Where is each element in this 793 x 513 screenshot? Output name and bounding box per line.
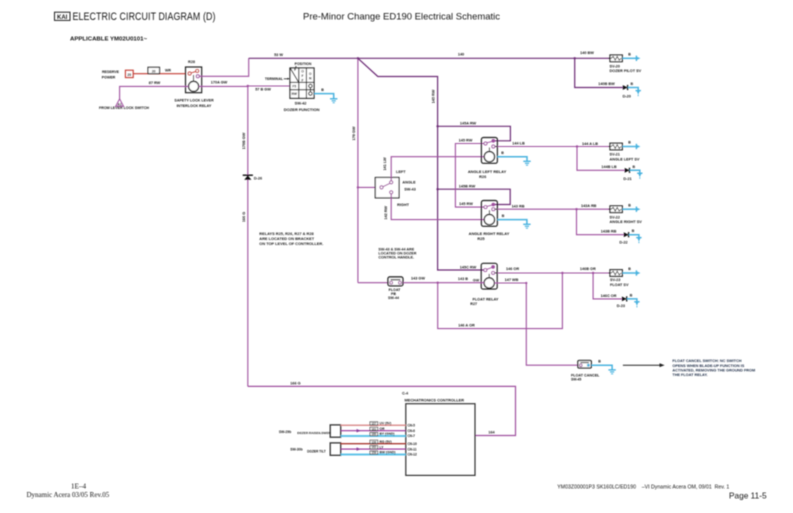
wire 146 A OR float self-hold: [438, 273, 563, 329]
svg-text:143A RB: 143A RB: [581, 204, 597, 208]
junction 146 OR / 146A OR: [561, 272, 563, 274]
svg-text:ANGLE: ANGLE: [402, 181, 416, 185]
wire 161 OR: [341, 430, 406, 432]
svg-text:R27: R27: [470, 302, 477, 306]
svg-text:R25: R25: [477, 236, 485, 241]
wire relay R28 contact output to top bus: [199, 58, 249, 76]
svg-text:B: B: [628, 267, 631, 271]
svg-text:CN-6: CN-6: [408, 429, 416, 433]
svg-text:20: 20: [152, 69, 156, 73]
wire 147 WB float relay coil to float cancel switch: [495, 283, 578, 365]
wire 143 RB relay R25 to SV-22: [497, 208, 609, 210]
svg-text:143 B: 143 B: [458, 277, 468, 281]
terminal B arrow D-23: [634, 302, 639, 308]
terminal B arrow SV-20: [636, 56, 640, 61]
wire 144B LB to diode D-21: [577, 147, 625, 171]
wire B from dozer switch to ground: [314, 94, 334, 99]
terminal B arrow D-22: [636, 238, 641, 244]
wire 170A GW: [199, 85, 248, 87]
terminal B arrow SV-23: [636, 270, 640, 275]
svg-text:RW: RW: [292, 92, 297, 96]
svg-text:O: O: [309, 72, 312, 76]
svg-text:SW-45: SW-45: [571, 377, 581, 381]
svg-text:1E–4: 1E–4: [71, 482, 87, 490]
relay R27 float relay: [481, 263, 497, 289]
svg-text:CN-11: CN-11: [408, 447, 417, 451]
relay R26 angle left relay: [481, 138, 497, 164]
svg-text:ANGLE LEFT RELAY: ANGLE LEFT RELAY: [468, 169, 507, 174]
wire WR red from reserve power to relay R28: [133, 73, 186, 75]
svg-text:B: B: [628, 203, 631, 207]
wire 156 RG (5V): [341, 443, 406, 445]
svg-text:FROM LEVER LOCK SWITCH: FROM LEVER LOCK SWITCH: [99, 106, 149, 110]
svg-text:APPLICABLE YM02U0101~: APPLICABLE YM02U0101~: [70, 37, 147, 43]
svg-text:159: 159: [371, 451, 376, 455]
svg-text:ANGLE LEFT SV: ANGLE LEFT SV: [610, 157, 640, 161]
wire B diode D-20: [628, 88, 638, 91]
svg-text:140: 140: [458, 53, 464, 57]
svg-text:D-22: D-22: [619, 241, 627, 245]
svg-text:OR: OR: [380, 427, 386, 431]
svg-text:UV (5V): UV (5V): [380, 422, 392, 426]
switch SW-42 dozer function: [290, 68, 314, 98]
svg-text:TERMINAL: TERMINAL: [265, 77, 284, 81]
svg-text:D-23: D-23: [617, 304, 625, 308]
wire 145 RW link between relay R26 and R25 pivots: [455, 144, 485, 208]
wire B diode D-22: [629, 235, 639, 238]
svg-text:170 GW: 170 GW: [352, 126, 356, 140]
svg-text:ANGLE RIGHT RELAY: ANGLE RIGHT RELAY: [469, 231, 510, 236]
ground dozer function switch: [330, 99, 337, 103]
svg-text:DOZER RAISE/LOWER: DOZER RAISE/LOWER: [297, 431, 331, 435]
svg-text:B: B: [628, 52, 631, 56]
relay R25 angle right relay: [481, 201, 497, 227]
off-page arrow FROM LEVER LOCK SWITCH: [116, 99, 124, 107]
svg-text:146 A OR: 146 A OR: [458, 324, 475, 328]
svg-text:SW-42: SW-42: [295, 101, 308, 106]
svg-text:THE FLOAT RELAY.: THE FLOAT RELAY.: [672, 373, 707, 377]
junction 146C OR branch: [592, 272, 594, 274]
wire 145A RW to relay R26 contact: [438, 126, 511, 141]
wire B relay R25 coil to ground: [497, 220, 527, 225]
svg-text:FLOAT SV: FLOAT SV: [610, 283, 629, 287]
junction top bus at node 140/170 GW: [357, 57, 359, 59]
svg-text:B: B: [632, 165, 635, 169]
arrow POSITION to cell: [294, 66, 296, 71]
svg-text:F: F: [302, 74, 304, 78]
arrow to float cancel note: [623, 363, 665, 367]
solenoid valve SV-22: [609, 206, 623, 213]
svg-text:146C OR: 146C OR: [601, 294, 617, 298]
svg-text:KAI: KAI: [57, 15, 68, 21]
ground relay R25: [523, 224, 530, 228]
diode D-20: [623, 85, 628, 90]
junction 145B RW: [436, 188, 438, 190]
wire B SV-22: [622, 208, 636, 210]
wire 145B RW to relay R25 contact: [438, 189, 511, 204]
wire 157 UV (5V): [341, 424, 406, 426]
svg-text:143B RB: 143B RB: [601, 230, 617, 234]
svg-text:FLOAT RELAY: FLOAT RELAY: [473, 297, 499, 301]
svg-text:D-20: D-20: [623, 94, 631, 98]
svg-text:ACTIVATED, REMOVING THE GROUND: ACTIVATED, REMOVING THE GROUND FROM: [672, 369, 755, 373]
wire 142 RW angle switch to relay R25 coil: [391, 194, 484, 220]
wire 146 OR float relay to SV-23: [498, 272, 611, 274]
potentiometer SW-30b dozer tilt: [330, 443, 341, 455]
svg-text:DOZER FUNCTION: DOZER FUNCTION: [284, 107, 320, 112]
svg-text:145 RW: 145 RW: [459, 202, 473, 206]
wire B diode D-23: [627, 299, 637, 302]
svg-text:170B GW: 170B GW: [242, 132, 246, 149]
wire 143 GW: [403, 282, 438, 284]
wire 144 LB relay R26 to SV-21: [497, 146, 610, 148]
switch SW-45 float cancel: [578, 361, 591, 369]
terminal B arrow D-20: [636, 91, 641, 97]
svg-text:141 LW: 141 LW: [383, 157, 387, 170]
wire 87 RW: [120, 86, 189, 98]
svg-text:ELECTRIC CIRCUIT DIAGRAM (D): ELECTRIC CIRCUIT DIAGRAM (D): [73, 11, 216, 23]
svg-text:SV-22: SV-22: [610, 215, 620, 219]
svg-text:SW-29b: SW-29b: [279, 430, 291, 434]
wire 162 LY: [341, 448, 406, 450]
wire 159 BW (GND): [341, 454, 406, 456]
solenoid valve SV-20: [609, 55, 623, 62]
svg-text:SV-23: SV-23: [610, 278, 620, 282]
svg-text:164: 164: [488, 431, 495, 435]
svg-text:Page 11-5: Page 11-5: [729, 490, 767, 500]
svg-text:157: 157: [371, 421, 376, 425]
wire 145 RW from bus to float relay (145C RW): [358, 58, 484, 270]
svg-text:RIGHT: RIGHT: [397, 203, 409, 207]
svg-text:53 W: 53 W: [274, 53, 283, 57]
svg-text:146 OR: 146 OR: [506, 267, 519, 271]
svg-text:B: B: [628, 141, 631, 145]
wire 57 B GW to dozer function switch: [248, 85, 290, 87]
svg-text:F5: F5: [292, 85, 296, 89]
svg-text:142 RW: 142 RW: [384, 206, 388, 220]
svg-text:SW-44: SW-44: [388, 296, 399, 300]
svg-text:Pre-Minor Change ED190 Electri: Pre-Minor Change ED190 Electrical Schema…: [303, 12, 500, 23]
potentiometer SW-29b dozer raise/lower: [330, 425, 341, 437]
svg-text:R26: R26: [479, 174, 487, 179]
wire 140B BW to diode D-20: [575, 58, 623, 87]
wire B diode D-21: [630, 170, 640, 173]
svg-text:B: B: [630, 293, 633, 297]
wire 170 GW to float pushbutton: [358, 282, 388, 284]
svg-text:INTERLOCK RELAY: INTERLOCK RELAY: [177, 104, 212, 108]
junction 170A GW / 170B GW: [247, 85, 249, 87]
controller C-4 box: [406, 404, 475, 476]
svg-text:CN-5: CN-5: [408, 424, 416, 428]
svg-text:166 G: 166 G: [242, 212, 246, 222]
diode D-26 on 170B GW / 166 G line: [243, 175, 253, 180]
svg-text:143 GW: 143 GW: [411, 277, 425, 281]
svg-text:ANGLE RIGHT SV: ANGLE RIGHT SV: [610, 220, 643, 224]
svg-text:147 WB: 147 WB: [505, 278, 519, 282]
svg-text:144B LB: 144B LB: [601, 165, 616, 169]
svg-text:GW: GW: [473, 279, 480, 283]
wire top bus 53 W / 140: [249, 57, 610, 59]
terminal B arrow SV-22: [636, 207, 640, 212]
arrow TERMINAL to column: [284, 78, 290, 80]
svg-text:POSITION: POSITION: [295, 62, 312, 66]
junction 143 GW node: [437, 282, 439, 284]
wire to angle switch pivot: [358, 186, 380, 188]
svg-text:POWER: POWER: [102, 76, 116, 80]
junction 145A RW: [436, 125, 438, 127]
svg-text:145A RW: 145A RW: [460, 122, 477, 126]
svg-text:FLOAT CANCEL SWITCH: NC SWITCH: FLOAT CANCEL SWITCH: NC SWITCH: [672, 359, 741, 363]
wire 143 B GW to float relay coil: [438, 282, 485, 284]
wire B float cancel to ground: [591, 365, 612, 370]
svg-text:B: B: [502, 214, 505, 218]
svg-text:140B BW: 140B BW: [598, 82, 615, 86]
terminal B arrow D-21: [637, 173, 642, 179]
svg-text:R28: R28: [188, 60, 195, 64]
KAI tab box: [55, 12, 71, 20]
svg-text:145B RW: 145B RW: [459, 185, 476, 189]
svg-text:CONTROL HANDLE.: CONTROL HANDLE.: [378, 255, 414, 259]
junction 170 GW to angle switch: [357, 186, 359, 188]
wire 143B RB to diode D-22: [577, 209, 624, 235]
svg-text:MECHATRONICS CONTROLLER: MECHATRONICS CONTROLLER: [405, 397, 465, 402]
diode D-22: [624, 232, 629, 237]
svg-text:F: F: [302, 78, 304, 82]
svg-text:D-21: D-21: [623, 177, 631, 181]
svg-text:DOZER PILOT SV: DOZER PILOT SV: [610, 69, 642, 73]
svg-text:161: 161: [371, 427, 376, 431]
svg-text:20: 20: [127, 73, 131, 77]
connector reserve power (red box): [125, 70, 133, 77]
junction 143B RB branch: [575, 208, 577, 210]
svg-text:57 B GW: 57 B GW: [255, 87, 271, 91]
wire 146C OR to diode D-23: [593, 273, 622, 299]
svg-text:B: B: [321, 88, 324, 92]
svg-text:B: B: [598, 359, 601, 363]
wire B SV-23: [622, 272, 636, 274]
svg-text:144 A LB: 144 A LB: [582, 142, 598, 146]
svg-text:ON TOP LEVEL OF CONTROLLER.: ON TOP LEVEL OF CONTROLLER.: [259, 241, 323, 246]
svg-text:OPENS WHEN BLADE-UP FUNCTION I: OPENS WHEN BLADE-UP FUNCTION IS: [672, 364, 744, 368]
wire 141 LW angle switch to relay R26 coil: [391, 157, 484, 181]
svg-text:140 BW: 140 BW: [580, 51, 594, 55]
svg-text:D-26: D-26: [254, 176, 262, 180]
svg-text:SAFETY LOCK LEVER: SAFETY LOCK LEVER: [174, 99, 214, 103]
svg-text:SW-43: SW-43: [404, 188, 416, 192]
svg-text:SV-21: SV-21: [610, 153, 620, 157]
svg-text:BW (GND): BW (GND): [380, 451, 396, 455]
svg-text:B: B: [632, 229, 635, 233]
svg-text:87 RW: 87 RW: [149, 81, 161, 85]
wire 170B GW vertical: [247, 86, 249, 386]
svg-text:166 G: 166 G: [290, 381, 300, 385]
svg-text:145 RW: 145 RW: [459, 139, 473, 143]
svg-text:CN-7: CN-7: [408, 434, 416, 438]
wire B SV-21: [622, 146, 636, 148]
svg-text:LEFT: LEFT: [396, 170, 406, 174]
svg-text:WR: WR: [165, 69, 171, 73]
wire B relay R26 coil to ground: [497, 157, 527, 162]
ground float cancel switch: [608, 370, 615, 374]
svg-text:SW-30b: SW-30b: [290, 448, 302, 452]
svg-text:BY (GND): BY (GND): [380, 432, 395, 436]
svg-text:145 RW: 145 RW: [431, 89, 435, 103]
svg-text:RG (5V): RG (5V): [380, 440, 392, 444]
svg-text:B: B: [630, 82, 633, 86]
junction 144B LB branch: [576, 145, 578, 147]
svg-text:144 LB: 144 LB: [512, 142, 525, 146]
fuse 20: [148, 67, 160, 73]
svg-text:B: B: [501, 151, 504, 155]
pushbutton SW-44 float PB: [388, 277, 403, 286]
terminal B arrow SV-21: [636, 144, 640, 149]
svg-text:156: 156: [371, 440, 376, 444]
svg-text:160: 160: [371, 432, 376, 436]
svg-text:SV-20: SV-20: [610, 64, 620, 68]
svg-text:170A GW: 170A GW: [211, 81, 228, 85]
svg-text:143 RB: 143 RB: [512, 204, 525, 208]
junction 140B BW branch: [574, 57, 576, 59]
svg-text:CN-10: CN-10: [408, 442, 417, 446]
solenoid valve SV-23: [609, 270, 623, 277]
svg-text:Dynamic Acera 03/05 Rev.05: Dynamic Acera 03/05 Rev.05: [27, 491, 110, 499]
wire 170 GW vertical: [357, 58, 359, 282]
wire 166 G / 164 to controller: [248, 386, 516, 435]
relay R28 safety lock lever interlock relay: [186, 67, 202, 93]
solenoid valve SV-21: [609, 143, 623, 150]
switch SW-43 angle: [375, 178, 399, 198]
ground relay R26: [523, 161, 530, 165]
svg-text:C-4: C-4: [402, 391, 409, 395]
svg-text:O: O: [301, 69, 304, 73]
svg-text:145C RW: 145C RW: [460, 265, 477, 269]
svg-text:YM03Z00001P3 SK160LC/ED190: YM03Z00001P3 SK160LC/ED190 –VI Dynamic A…: [557, 484, 729, 490]
svg-text:146B OR: 146B OR: [580, 267, 596, 271]
svg-text:DOZER TILT: DOZER TILT: [307, 449, 326, 453]
diode D-23: [622, 296, 627, 301]
diode D-21: [625, 168, 630, 173]
svg-text:162: 162: [371, 445, 376, 449]
wire B SV-20: [622, 57, 636, 59]
svg-text:CN-12: CN-12: [408, 453, 417, 457]
wire 160 BY (GND): [341, 435, 406, 437]
svg-text:RESERVE: RESERVE: [102, 70, 120, 74]
